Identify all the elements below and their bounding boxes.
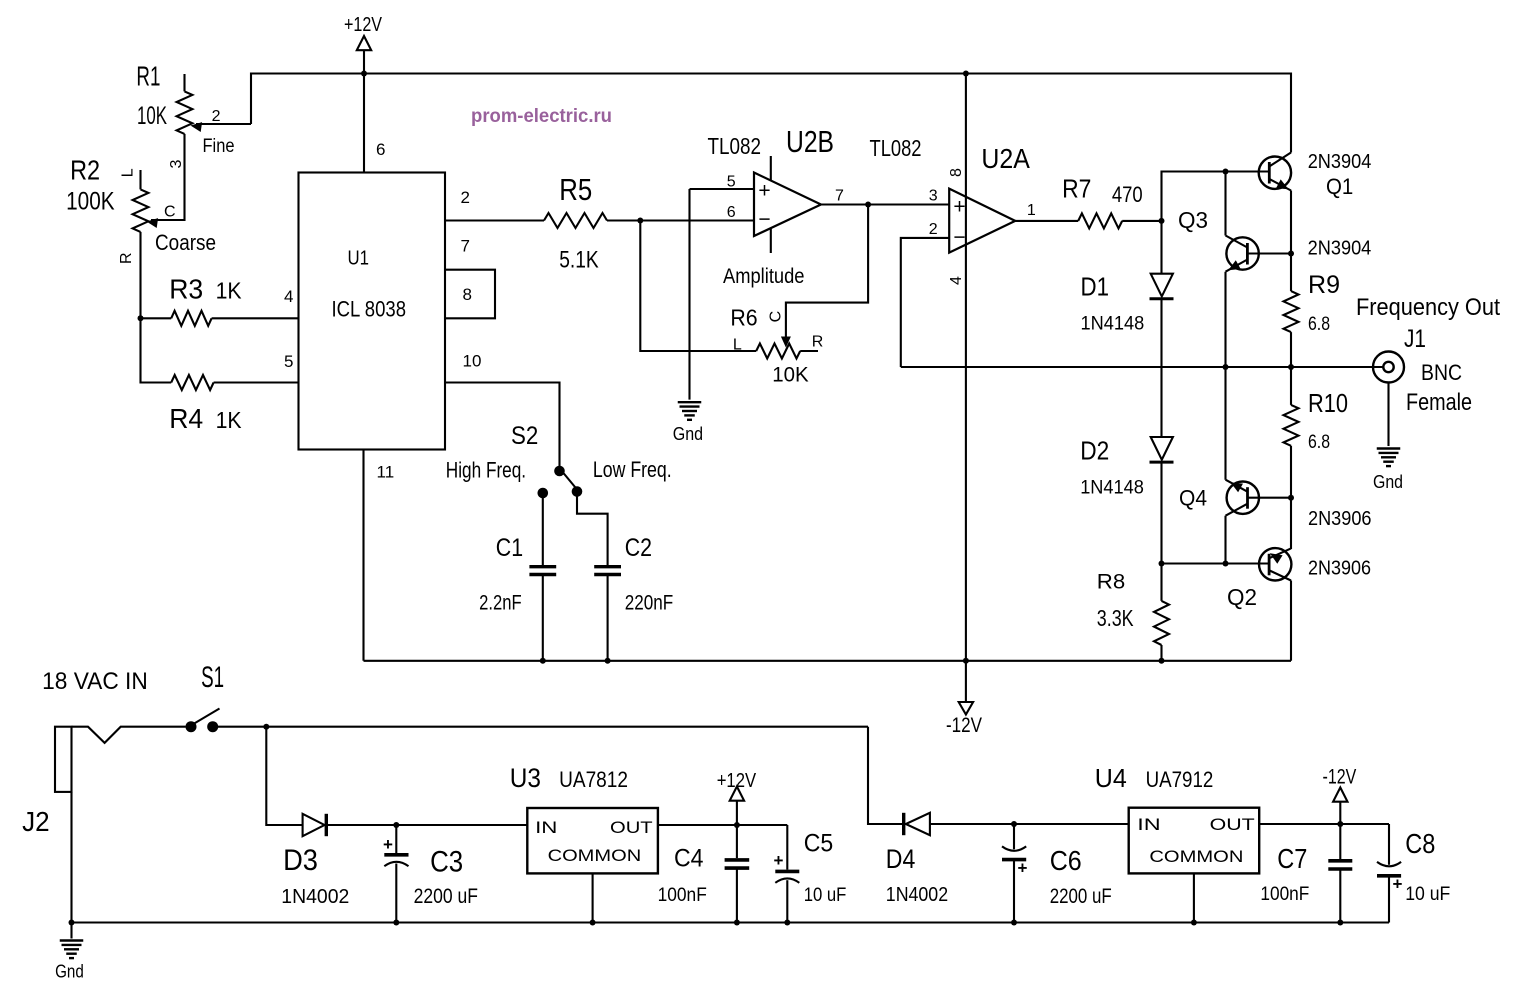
svg-text:C1: C1 xyxy=(496,534,523,562)
svg-text:4: 4 xyxy=(948,276,965,285)
wire R1 to R2 wiper xyxy=(151,134,185,220)
wire J2 ground drop xyxy=(70,792,72,939)
svg-text:6.8: 6.8 xyxy=(1308,314,1330,335)
svg-text:R8: R8 xyxy=(1097,569,1125,593)
svg-text:C2: C2 xyxy=(625,534,652,562)
node mid-wire R9R10 junction xyxy=(1288,364,1294,370)
ground Gnd under J1 xyxy=(1377,447,1401,449)
svg-text:8: 8 xyxy=(948,168,965,177)
potentiometer R6 10K xyxy=(756,344,800,359)
svg-text:Gnd: Gnd xyxy=(55,962,84,982)
svg-text:2200 uF: 2200 uF xyxy=(414,885,478,908)
capacitor C5 10uF xyxy=(786,825,788,870)
regulator U4 UA7912 xyxy=(1129,808,1260,874)
capacitor C7 100nF xyxy=(1339,824,1341,859)
svg-text:2N3906: 2N3906 xyxy=(1308,507,1372,530)
op-amp U2A TL082 xyxy=(949,189,1015,253)
svg-text:5.1K: 5.1K xyxy=(559,247,599,274)
resistor R4 1K xyxy=(171,375,213,390)
svg-text:2: 2 xyxy=(929,221,938,238)
node U4 common gnd junction xyxy=(1191,920,1197,926)
op-amp U1 ICL 8038 xyxy=(299,173,446,450)
svg-text:Q2: Q2 xyxy=(1227,584,1257,610)
svg-text:Gnd: Gnd xyxy=(673,424,703,444)
svg-text:Gnd: Gnd xyxy=(1373,472,1403,492)
svg-text:R10: R10 xyxy=(1308,388,1348,418)
transistor Q4 2N3906 xyxy=(1227,482,1259,514)
svg-text:1N4148: 1N4148 xyxy=(1081,313,1145,334)
wire R6 wiper feedback xyxy=(786,205,868,341)
wire U2B output xyxy=(821,203,949,205)
svg-text:S1: S1 xyxy=(201,661,224,694)
svg-text:7: 7 xyxy=(461,237,470,256)
pin 6 wire xyxy=(363,74,365,173)
svg-text:IN: IN xyxy=(535,818,557,837)
svg-text:R5: R5 xyxy=(559,172,592,207)
svg-text:UA7912: UA7912 xyxy=(1146,767,1214,792)
wire R2 lead down xyxy=(141,232,172,383)
svg-text:R7: R7 xyxy=(1062,173,1091,203)
wire Q1 emitter rail xyxy=(1290,191,1292,254)
wire jack tip contact xyxy=(72,727,186,743)
ground Gnd under U2B xyxy=(678,401,702,403)
wire R7 junction up to Q1 base xyxy=(1162,172,1269,221)
svg-text:3: 3 xyxy=(168,160,185,169)
svg-text:R9: R9 xyxy=(1308,271,1340,299)
svg-text:5: 5 xyxy=(727,173,736,190)
svg-text:−: − xyxy=(758,208,770,231)
svg-text:U3: U3 xyxy=(510,763,541,793)
transistor Q2 2N3906 xyxy=(1259,548,1291,580)
ground Gnd under J2 xyxy=(60,939,84,941)
wire junction to R6 xyxy=(640,221,756,352)
svg-text:C4: C4 xyxy=(674,844,704,872)
node C6 junction xyxy=(1011,821,1017,827)
svg-text:R4: R4 xyxy=(169,403,203,434)
resistor R10 6.8 xyxy=(1290,367,1292,405)
svg-text:IN: IN xyxy=(1137,815,1160,834)
pin 2 wire U2A xyxy=(901,238,949,367)
svg-text:D1: D1 xyxy=(1081,272,1110,302)
capacitor C3 2200uF xyxy=(395,825,397,853)
svg-text:L: L xyxy=(733,337,742,354)
svg-text:Female: Female xyxy=(1406,389,1472,416)
power symbol -12V regulator xyxy=(1333,788,1347,802)
svg-text:D3: D3 xyxy=(283,844,318,877)
svg-text:OUT: OUT xyxy=(1210,815,1255,834)
svg-text:C: C xyxy=(768,311,785,323)
node C3 gnd junction xyxy=(393,920,399,926)
svg-text:10K: 10K xyxy=(137,102,167,130)
svg-text:L: L xyxy=(120,168,137,177)
svg-text:1N4002: 1N4002 xyxy=(281,886,349,908)
node C2 bottom junction xyxy=(605,658,611,664)
svg-text:prom-electric.ru: prom-electric.ru xyxy=(471,106,612,127)
svg-text:BNC: BNC xyxy=(1421,360,1462,385)
op-amp U2B TL082 xyxy=(754,173,821,237)
resistor R5 5.1K xyxy=(445,219,544,221)
svg-text:High Freq.: High Freq. xyxy=(446,458,526,483)
svg-text:5: 5 xyxy=(284,352,293,371)
node D2 R8 junction xyxy=(1159,561,1165,567)
wire -12V rail xyxy=(965,74,967,702)
pin 5 wire U2B grounded xyxy=(690,188,755,190)
node U2B output junction xyxy=(865,202,871,208)
svg-text:U1: U1 xyxy=(348,248,370,270)
svg-text:2N3904: 2N3904 xyxy=(1308,237,1372,260)
svg-text:1K: 1K xyxy=(216,278,243,304)
svg-text:D2: D2 xyxy=(1080,436,1109,466)
node -12V rail bottom-rail junction xyxy=(963,658,969,664)
svg-text:Q1: Q1 xyxy=(1326,174,1353,199)
svg-text:R6: R6 xyxy=(730,304,757,330)
resistor R8 3.3K xyxy=(1160,564,1162,601)
wire branch to D3 xyxy=(266,727,302,825)
wire lower base wire xyxy=(1162,562,1269,564)
transistor Q3 2N3904 xyxy=(1226,237,1258,269)
node Q4 collector junction xyxy=(1223,561,1229,567)
svg-text:C: C xyxy=(164,203,176,220)
diode D1 1N4148 xyxy=(1160,221,1162,274)
svg-text:1N4148: 1N4148 xyxy=(1080,478,1144,499)
wire Q3 collector vertical xyxy=(1224,172,1226,236)
connector J2 jack xyxy=(55,727,72,792)
svg-text:10: 10 xyxy=(463,352,482,371)
svg-text:7: 7 xyxy=(835,188,844,205)
svg-text:OUT: OUT xyxy=(610,818,653,837)
svg-text:10 uF: 10 uF xyxy=(1405,884,1450,905)
wire top +12V rail xyxy=(251,74,1291,153)
wire R1 wiper to rail xyxy=(196,123,251,125)
svg-text:2: 2 xyxy=(212,108,221,125)
svg-text:+: + xyxy=(774,851,784,870)
node +12V junction -12V rail xyxy=(963,71,969,77)
transistor Q1 2N3904 xyxy=(1259,157,1291,189)
svg-text:2: 2 xyxy=(461,188,470,207)
capacitor C4 100nF xyxy=(736,825,738,858)
node C7 gnd junction xyxy=(1337,920,1343,926)
svg-text:3.3K: 3.3K xyxy=(1097,605,1134,631)
svg-text:C7: C7 xyxy=(1277,843,1307,874)
svg-text:6: 6 xyxy=(376,140,385,159)
wire Q3 emitter to Q4 emitter xyxy=(1224,272,1226,480)
svg-text:10K: 10K xyxy=(772,363,808,386)
svg-text:J1: J1 xyxy=(1404,325,1426,353)
wire pin 10 to S2 xyxy=(445,383,560,467)
node Q4 base junction xyxy=(1288,495,1294,501)
node R8 bottom junction xyxy=(1159,658,1165,664)
svg-text:Q3: Q3 xyxy=(1178,207,1208,233)
svg-text:U2B: U2B xyxy=(786,124,834,159)
svg-text:470: 470 xyxy=(1112,182,1143,207)
svg-text:C3: C3 xyxy=(430,846,463,879)
svg-text:+12V: +12V xyxy=(344,14,383,36)
capacitor C1 2.2nF xyxy=(542,498,544,566)
svg-text:−: − xyxy=(953,226,965,249)
svg-text:U4: U4 xyxy=(1095,763,1127,793)
diode D3 1N4002 xyxy=(303,814,325,836)
node C5 gnd junction xyxy=(784,920,790,926)
potentiometer R1 10K xyxy=(183,74,185,91)
svg-text:+12V: +12V xyxy=(717,770,757,792)
capacitor C8 10uF xyxy=(1388,824,1390,865)
capacitor C6 2200uF xyxy=(1013,824,1015,849)
svg-text:+: + xyxy=(1018,859,1028,878)
svg-text:2.2nF: 2.2nF xyxy=(479,591,521,614)
svg-text:R: R xyxy=(118,252,135,264)
svg-text:COMMON: COMMON xyxy=(1149,847,1243,866)
svg-text:18 VAC IN: 18 VAC IN xyxy=(42,668,148,695)
node Q3 base junction xyxy=(1288,251,1294,257)
node J2 ground junction xyxy=(69,920,75,926)
svg-text:Low Freq.: Low Freq. xyxy=(593,457,672,482)
svg-text:2N3904: 2N3904 xyxy=(1308,150,1372,173)
svg-text:Fine: Fine xyxy=(203,136,235,157)
svg-text:-12V: -12V xyxy=(946,714,982,737)
svg-text:C8: C8 xyxy=(1405,828,1435,859)
connector J1 BNC xyxy=(1373,352,1404,383)
wire Q4 base rail xyxy=(1290,498,1292,549)
potentiometer R2 100K xyxy=(139,170,141,189)
node +12V C4 junction xyxy=(734,822,740,828)
wire S1 to regulators xyxy=(213,726,868,728)
svg-text:+: + xyxy=(953,196,965,219)
svg-text:10 uF: 10 uF xyxy=(804,885,847,906)
wire U3 out xyxy=(658,824,787,826)
svg-text:R: R xyxy=(812,334,824,351)
svg-text:J2: J2 xyxy=(22,806,49,837)
svg-text:R2: R2 xyxy=(70,154,100,185)
wire U4 out xyxy=(1259,823,1389,825)
node +12V junction pin6 xyxy=(361,71,367,77)
svg-text:COMMON: COMMON xyxy=(548,846,642,865)
svg-text:6.8: 6.8 xyxy=(1308,432,1330,453)
svg-text:100K: 100K xyxy=(66,188,115,216)
node mid-wire Q3Q4 junction xyxy=(1223,364,1229,370)
switch S2 xyxy=(554,466,565,477)
switch S1 xyxy=(186,721,197,732)
svg-text:C6: C6 xyxy=(1050,845,1082,876)
node R2-R3 junction xyxy=(138,315,144,321)
svg-text:Coarse: Coarse xyxy=(155,230,216,255)
svg-text:Frequency Out: Frequency Out xyxy=(1356,294,1500,321)
power symbol +12V regulator xyxy=(730,787,744,801)
node U3 common gnd junction xyxy=(590,920,596,926)
diode D4 1N4002 reversed xyxy=(902,813,905,835)
svg-text:100nF: 100nF xyxy=(1260,884,1309,905)
node -12V C7 junction xyxy=(1337,821,1343,827)
pin 8 loop xyxy=(445,270,495,319)
resistor R7 470 xyxy=(1078,213,1122,228)
power symbol -12V mid xyxy=(959,702,973,715)
svg-text:TL082: TL082 xyxy=(708,133,762,159)
regulator U3 UA7812 xyxy=(527,808,658,873)
svg-text:S2: S2 xyxy=(511,422,538,450)
svg-text:8: 8 xyxy=(463,285,472,304)
wire Q4 collector down xyxy=(1224,516,1226,564)
wire U2A output pin 1 xyxy=(1015,220,1078,222)
svg-text:1N4002: 1N4002 xyxy=(886,884,948,906)
svg-text:+: + xyxy=(383,835,393,854)
svg-text:TL082: TL082 xyxy=(870,135,922,161)
wire bottom ground rail xyxy=(72,921,1390,923)
svg-text:+: + xyxy=(1393,875,1403,894)
wire mid output xyxy=(901,366,1384,368)
svg-text:11: 11 xyxy=(377,463,395,482)
pin 11 wire xyxy=(362,450,364,661)
wire branch to D4 xyxy=(868,727,904,824)
svg-text:2N3906: 2N3906 xyxy=(1308,557,1371,580)
wire bottom rail top-section xyxy=(364,660,1292,662)
node C3 junction xyxy=(393,822,399,828)
svg-text:100nF: 100nF xyxy=(658,885,707,906)
svg-text:R3: R3 xyxy=(169,274,203,305)
svg-text:-12V: -12V xyxy=(1323,765,1357,788)
svg-text:U2A: U2A xyxy=(981,143,1030,174)
svg-text:6: 6 xyxy=(727,204,736,221)
svg-text:1K: 1K xyxy=(216,407,243,433)
resistor R3 1K xyxy=(141,317,172,319)
svg-text:C5: C5 xyxy=(804,830,834,858)
svg-text:1: 1 xyxy=(1027,202,1036,219)
wire Q2 collector rail xyxy=(1290,581,1292,661)
node C6 gnd junction xyxy=(1011,920,1017,926)
node R7 output junction xyxy=(1159,218,1165,224)
node Q3 collector junction xyxy=(1223,169,1229,175)
svg-text:Amplitude: Amplitude xyxy=(723,265,805,288)
svg-text:4: 4 xyxy=(284,287,293,306)
svg-text:R1: R1 xyxy=(136,60,160,91)
wire U3 common xyxy=(592,873,594,922)
node C1 bottom junction xyxy=(540,658,546,664)
svg-text:ICL 8038: ICL 8038 xyxy=(332,297,407,322)
svg-text:3: 3 xyxy=(929,187,938,204)
node R5-R6 junction xyxy=(637,218,643,224)
svg-text:D4: D4 xyxy=(886,844,916,874)
svg-text:+: + xyxy=(758,180,770,203)
wire U4 common xyxy=(1193,873,1195,922)
resistor R9 6.8 xyxy=(1290,254,1292,292)
node C4 gnd junction xyxy=(734,920,740,926)
svg-text:2200 uF: 2200 uF xyxy=(1050,885,1112,908)
svg-text:Q4: Q4 xyxy=(1179,486,1207,511)
svg-text:UA7812: UA7812 xyxy=(559,767,628,792)
diode D2 1N4148 xyxy=(1151,437,1173,460)
svg-text:220nF: 220nF xyxy=(625,591,674,614)
node D3 branch junction xyxy=(263,724,269,730)
capacitor C2 220nF xyxy=(577,496,608,565)
